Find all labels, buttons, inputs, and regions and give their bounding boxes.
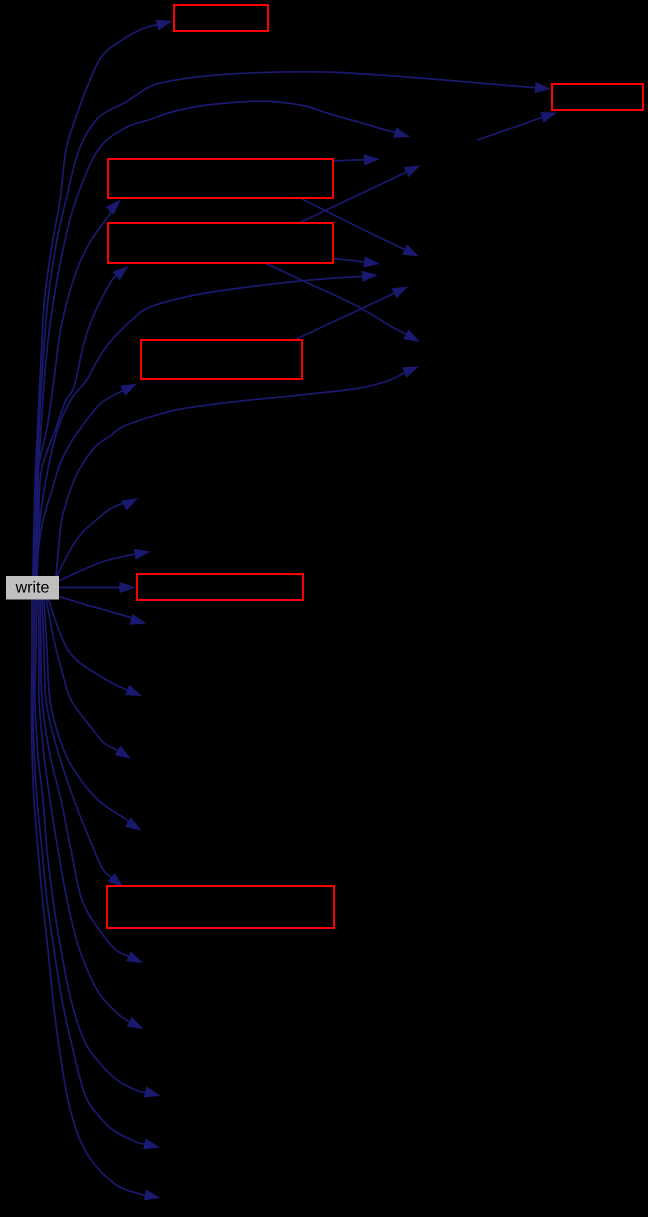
edge write->node12	[42, 598, 124, 888]
node write	[6, 576, 59, 600]
edge write->inv_i	[35, 598, 161, 1097]
edge write->node11	[56, 367, 419, 577]
node node7	[141, 340, 302, 379]
edge node3->inv_l2	[297, 165, 421, 224]
edge node2->inv_l	[333, 154, 380, 165]
edge write->inv_e	[46, 598, 131, 759]
edge write->inv_b	[59, 549, 151, 581]
edge write->inv_a	[57, 498, 138, 576]
edge node3->inv_n	[333, 256, 380, 267]
edge inv_l2->node13	[477, 112, 557, 140]
edge write->node9	[37, 271, 378, 576]
edge write->node13 top	[35, 72, 552, 576]
edge write->node3	[36, 266, 129, 576]
edge write->inv_g	[40, 598, 143, 963]
edge write->inv_j	[33, 598, 160, 1149]
node node13	[552, 84, 643, 110]
edge write->inv_k	[32, 598, 161, 1200]
node node3	[108, 223, 333, 263]
edge write->inv_d	[48, 598, 142, 696]
edge write->inv_h	[38, 598, 144, 1029]
edge write->node4	[36, 101, 410, 576]
edge write->inv_c	[60, 597, 147, 625]
node node2	[108, 159, 333, 198]
node node12	[107, 886, 334, 928]
edge write->node7	[35, 384, 137, 577]
node node1	[174, 5, 268, 31]
node node10	[137, 574, 303, 600]
edge node7->inv_p	[294, 287, 409, 341]
edge write->inv_f	[44, 598, 142, 831]
edge node3->inv_o	[266, 264, 420, 343]
edge write->node2	[34, 200, 121, 577]
edge write->node10	[59, 582, 136, 593]
edge write->node1	[33, 20, 173, 576]
edge node2->inv_m	[302, 199, 419, 257]
